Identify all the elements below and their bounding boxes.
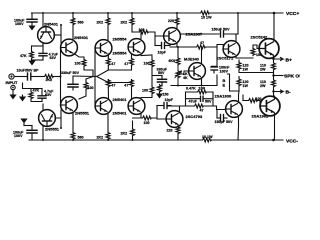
wire Q1 collector down — [42, 43, 44, 46]
ground bias network — [28, 61, 35, 66]
wire Q7 collector to rail — [273, 13, 275, 41]
resistor 47K lower — [29, 92, 33, 100]
svg-text:2N5551: 2N5551 — [45, 127, 60, 132]
transistor Q5 2SA1837 driver top — [164, 28, 181, 45]
svg-text:330uF 50V: 330uF 50V — [61, 71, 80, 75]
svg-text:2K2: 2K2 — [46, 78, 53, 82]
wire Q6 emitter to 100 — [236, 57, 253, 59]
svg-text:B-: B- — [286, 90, 292, 96]
wire parallel box — [186, 92, 214, 106]
svg-text:100: 100 — [144, 121, 150, 125]
resistor 100 horizontal VAS top — [139, 30, 149, 34]
svg-text:100: 100 — [144, 62, 150, 66]
resistor 6K8 — [176, 58, 180, 66]
transistor Q3 2N5554 diff pair right — [95, 40, 112, 57]
resistor 47 horizontal bottom — [194, 104, 204, 108]
wire 100 to Q7 base — [253, 45, 261, 49]
wire Q8 base — [178, 71, 189, 74]
svg-text:47: 47 — [124, 62, 128, 66]
node B- — [272, 90, 274, 92]
wire to SPK node — [273, 71, 275, 80]
svg-text:100: 100 — [88, 86, 94, 90]
ground input sleeve — [12, 90, 14, 95]
svg-text:2SA1962: 2SA1962 — [252, 114, 269, 119]
wire Q5 emitter to 220 — [176, 28, 178, 30]
label SPK OUT — [274, 75, 284, 77]
svg-text:100: 100 — [139, 28, 145, 32]
wire Q13 collector up — [167, 106, 194, 111]
svg-text:2N5401: 2N5401 — [113, 97, 128, 102]
wire Q8 collector-emitter — [201, 47, 203, 86]
wire bias node horizontal — [32, 45, 44, 47]
svg-text:47: 47 — [111, 62, 115, 66]
capacitor 330uF 50V left — [61, 71, 80, 90]
transistor Q12 2N5401 cascode bottom — [128, 98, 145, 115]
resistor 47 horizontal top — [196, 45, 206, 49]
transistor Q14 2SA1930 — [226, 101, 243, 118]
wire bottom rail right segment — [212, 139, 283, 141]
bottom VCC- rail wire — [29, 139, 202, 141]
svg-text:100: 100 — [75, 62, 81, 66]
svg-text:560: 560 — [78, 136, 84, 140]
wire shunt bottom join — [23, 95, 43, 102]
wire 47 to Q6 base — [206, 45, 223, 50]
resistor 47 mid upper row left — [106, 58, 110, 66]
svg-text:VCC-: VCC- — [286, 139, 298, 145]
transistor Q13 2SC4793 driver bottom — [166, 111, 183, 128]
wire Q7 emitter down — [273, 56, 275, 63]
input jack sleeve — [11, 85, 15, 89]
transistor Q4 2N5554 cascode — [128, 39, 145, 56]
wire Q9 to rail — [42, 126, 44, 140]
svg-text:0.47K: 0.47K — [186, 87, 196, 91]
input jack tip — [9, 74, 14, 79]
svg-text:SPK OU: SPK OU — [284, 74, 300, 80]
wire Q15 collector to rail — [274, 114, 276, 141]
resistor 2K2 bottom b — [131, 129, 135, 137]
wire Q2 base — [60, 48, 62, 77]
svg-text:2K2: 2K2 — [121, 21, 128, 25]
node rail-Q1 junction — [42, 12, 44, 14]
wire rail to Q1 — [42, 13, 44, 27]
wire Q5 collector down to 47 — [170, 43, 196, 48]
svg-text:100: 100 — [142, 88, 148, 92]
capacitor C13 100uF 100V bottom — [13, 124, 37, 141]
transistor Q8 MJE340 bias — [189, 63, 206, 80]
capacitor C1 100uF 100V — [14, 13, 37, 26]
svg-text:47: 47 — [124, 83, 128, 87]
wire 560 to Q2 — [72, 26, 74, 40]
wire Q13 emitter to 220 — [177, 126, 179, 127]
wire join bias bottom — [31, 59, 33, 60]
svg-text:150: 150 — [163, 93, 169, 97]
wire bias lower rail — [171, 85, 217, 87]
wire Q12 collector to 100 — [133, 114, 143, 118]
wire top rail right segment — [210, 12, 283, 14]
ground shunt network — [19, 97, 26, 102]
svg-text:2SC5171: 2SC5171 — [217, 56, 234, 61]
resistor 150 mid — [158, 85, 162, 93]
resistor 100 base top output — [251, 48, 255, 56]
resistor 10 1W (bottom rail series) — [202, 138, 212, 142]
svg-text:E: E — [223, 83, 226, 88]
transistor Q2 2N5401 diff pair left — [61, 39, 78, 56]
svg-text:B+: B+ — [286, 58, 293, 64]
capacitor 47uF 50V — [186, 96, 214, 103]
svg-text:2N5401: 2N5401 — [113, 111, 128, 116]
resistor 100 mid upper-left — [82, 59, 86, 67]
svg-text:47: 47 — [200, 109, 204, 113]
svg-text:2SC4793: 2SC4793 — [186, 114, 203, 119]
svg-text:50V: 50V — [158, 71, 165, 75]
resistor 100 mid-col lower — [150, 87, 154, 95]
resistor 100 mid lower-left — [84, 82, 88, 90]
wire rail drop x238 — [237, 13, 239, 34]
svg-text:10pF: 10pF — [158, 51, 167, 55]
resistor 0.47R 10R coil — [197, 90, 207, 94]
resistor 120 1W lower — [237, 79, 241, 87]
resistor 560 top — [71, 18, 75, 26]
svg-text:MJE340: MJE340 — [184, 57, 200, 62]
resistor 220 top — [175, 18, 179, 26]
capacitor 10pF miller top — [155, 43, 170, 55]
resistor 2K2 bottom a — [106, 132, 110, 140]
svg-text:47K: 47K — [33, 88, 40, 92]
wire Q1 base to diff rail — [54, 34, 61, 36]
svg-text:560: 560 — [78, 21, 84, 25]
wire input shunt node — [23, 83, 43, 89]
svg-text:2W: 2W — [260, 84, 266, 88]
node VCC+ junction — [273, 12, 276, 15]
svg-text:VCC+: VCC+ — [286, 11, 299, 17]
wire Q4 emitter to 47 — [131, 54, 133, 58]
svg-text:2N5551: 2N5551 — [75, 111, 90, 116]
svg-text:2SC5242: 2SC5242 — [251, 35, 268, 40]
wire Q14 emitter up — [238, 91, 241, 103]
resistor 47 mid upper row right — [130, 58, 134, 66]
wire to Q15 emitter — [273, 88, 275, 97]
resistor 560 bottom — [71, 132, 75, 140]
resistor 47 mid lower row right — [130, 80, 134, 88]
wire 47s diagonal join lower — [97, 77, 132, 83]
svg-text:100V: 100V — [15, 22, 24, 26]
svg-text:2K2: 2K2 — [97, 21, 104, 25]
svg-text:100V: 100V — [220, 69, 229, 73]
svg-text:150pF 50V: 150pF 50V — [215, 120, 234, 124]
transistor Q1 2N5401 current source top-left — [38, 27, 55, 44]
svg-text:10uF/50V BP: 10uF/50V BP — [17, 69, 40, 73]
wire input to bases — [54, 76, 61, 78]
node rail-Q9 junction — [42, 139, 44, 141]
wire Q14 collector down — [237, 116, 240, 141]
svg-text:2K2: 2K2 — [97, 136, 104, 140]
capacitor 150pF 50V bottom — [215, 110, 234, 124]
ground 150 — [159, 93, 161, 94]
resistor 10 1W (top rail series) — [200, 11, 210, 15]
resistor 2K2 top a — [106, 18, 110, 26]
wire 100 to Q13 base — [152, 106, 165, 120]
svg-text:6K8: 6K8 — [169, 59, 176, 63]
svg-text:2W: 2W — [260, 68, 266, 72]
svg-text:63V: 63V — [45, 93, 52, 97]
capacitor 4.7uF 63V lower — [38, 89, 54, 102]
wire 47 to Q14 — [204, 106, 225, 110]
svg-text:2K2: 2K2 — [121, 132, 128, 136]
wire Q10 base — [60, 77, 62, 106]
wire bias to output column — [217, 74, 239, 91]
svg-text:47: 47 — [111, 83, 115, 87]
capacitor 4.7uF 63V upper — [39, 46, 59, 60]
wire Q2 emitter to 100 — [74, 54, 84, 60]
transistor Q9 2N5551 current source bottom — [39, 110, 56, 127]
svg-text:2N5554: 2N5554 — [113, 37, 128, 42]
capacitor 10pF miller bottom — [157, 98, 174, 109]
resistor emitter 0.22 top — [272, 63, 276, 71]
wire 120s to output node — [239, 60, 274, 91]
ground bottom-left cap — [20, 119, 27, 124]
ground below C1 — [28, 26, 35, 31]
wire 100 to Q5 base — [149, 32, 163, 46]
wire Q9 base — [55, 110, 61, 128]
transistor Q7 2SC5242 output top — [259, 39, 279, 59]
wire 47s diagonal join upper — [95, 66, 108, 76]
svg-text:1W: 1W — [243, 68, 249, 72]
wire Q15 emitter up — [274, 96, 275, 99]
transistor Q11 2N5401 diff pair right bottom — [95, 98, 112, 115]
svg-text:2SA1930: 2SA1930 — [215, 94, 232, 99]
svg-text:220: 220 — [167, 129, 173, 133]
transistor Q6 2SC5171 — [223, 41, 240, 58]
wire Q3 base feedback column — [94, 48, 96, 106]
node B+ — [272, 58, 274, 60]
wire Q4 collector to 100 — [132, 32, 141, 39]
wire Q9 top — [42, 104, 44, 110]
node VCC- junction — [272, 139, 275, 142]
svg-text:1W: 1W — [243, 84, 249, 88]
top VCC+ rail wire — [32, 12, 201, 14]
resistor 2K2 input series — [44, 75, 54, 79]
svg-text:63V: 63V — [50, 56, 57, 60]
svg-text:2N5401: 2N5401 — [44, 22, 59, 27]
capacitor 10uF BP input — [14, 73, 44, 80]
capacitor 150uF 50V top — [212, 28, 239, 38]
resistor 2K2 top b — [130, 18, 134, 26]
resistor 47 mid lower row left — [106, 80, 110, 88]
svg-text:47K: 47K — [20, 54, 27, 58]
svg-text:220: 220 — [168, 19, 174, 23]
svg-text:50V: 50V — [205, 100, 212, 104]
wire Q3 emitter to 47 upper-left — [107, 54, 109, 58]
svg-text:10R: 10R — [199, 87, 206, 91]
resistor 220 bottom — [176, 127, 180, 135]
wire Q5 to cap 150uF — [181, 33, 219, 35]
svg-text:100V: 100V — [14, 134, 23, 138]
wire 100 lower to Q10 emitter — [79, 77, 93, 100]
resistor 100 base bottom output — [248, 99, 258, 103]
svg-text:10pF: 10pF — [165, 98, 174, 102]
svg-text:2N5554: 2N5554 — [113, 51, 128, 56]
potentiometer 1K — [176, 71, 180, 79]
transistor Q10 2N5551 diff pair left bottom — [61, 97, 78, 114]
svg-text:INPUT: INPUT — [6, 80, 19, 85]
resistor 100 horizontal VAS bottom — [142, 116, 152, 120]
svg-text:10 1W: 10 1W — [202, 135, 213, 139]
wire lower 47 to Q11 emitter — [107, 88, 109, 100]
transistor Q15 2SA1962 output bottom — [260, 96, 280, 116]
wire fb node — [73, 75, 95, 78]
resistor 47K upper — [31, 46, 33, 51]
wire 100 to Q15 base — [243, 101, 261, 107]
capacitor 100nF 100V — [211, 47, 230, 73]
resistor 100 mid-col upper — [150, 60, 154, 68]
svg-text:47: 47 — [200, 41, 204, 45]
svg-text:4K: 4K — [183, 76, 188, 80]
wire 100 down to fb — [84, 67, 93, 77]
wire fb cap chain bottom — [161, 82, 163, 86]
node rail-2K2b junction — [132, 139, 134, 141]
resistor 120 1W upper — [237, 62, 241, 70]
resistor emitter 0.22 bottom — [272, 80, 276, 88]
svg-text:10 1W: 10 1W — [201, 15, 212, 19]
capacitor 330uF 50V mid — [152, 68, 168, 86]
svg-text:2N5401: 2N5401 — [74, 35, 89, 40]
wire Q6 collector up — [235, 34, 237, 42]
svg-text:47uF: 47uF — [189, 100, 198, 104]
